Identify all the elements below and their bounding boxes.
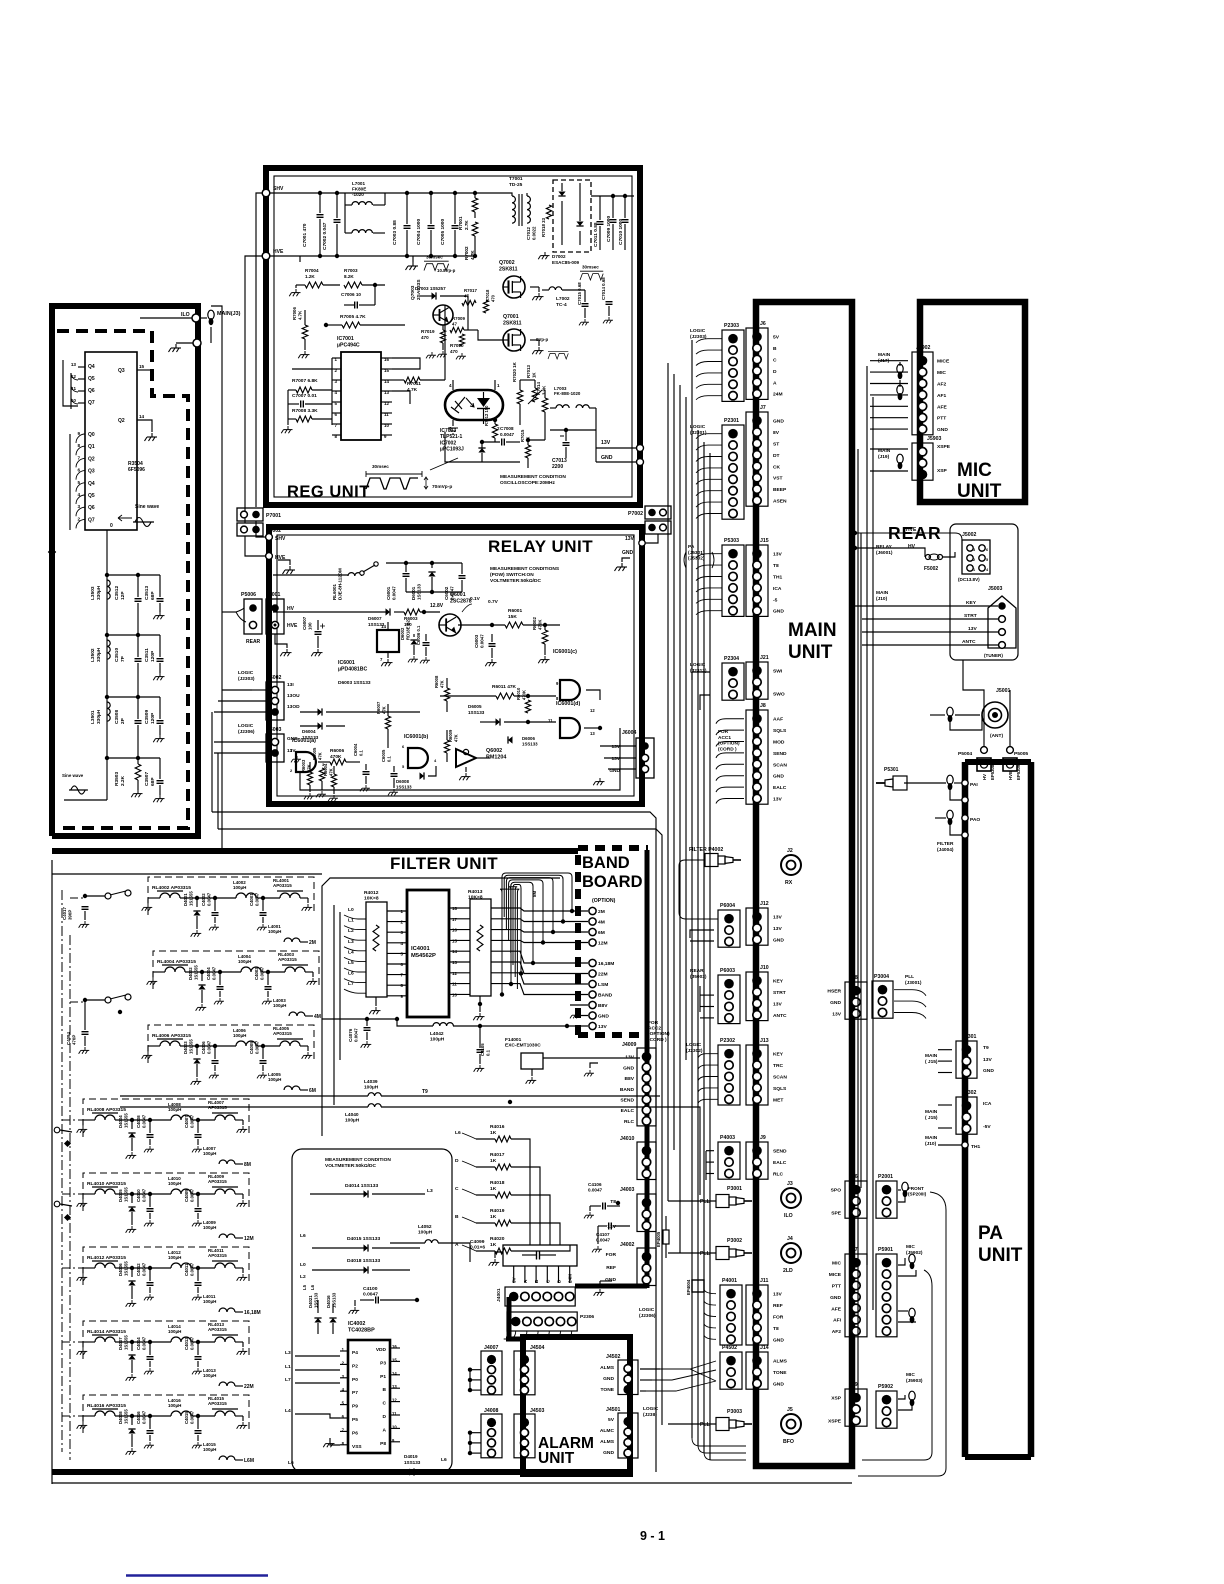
wires into J6002/J6003 xyxy=(252,689,266,691)
svg-text:GND: GND xyxy=(830,1000,841,1006)
svg-text:L4042: L4042 xyxy=(430,1031,444,1037)
svg-text:SQLS: SQLS xyxy=(773,728,787,734)
svg-text:D4021: D4021 xyxy=(308,1295,313,1308)
svg-text:J16: J16 xyxy=(849,1174,858,1180)
svg-text:Q7002: Q7002 xyxy=(499,260,515,266)
svg-text:(J19): (J19) xyxy=(878,454,890,460)
ground R7006 xyxy=(298,351,309,358)
svg-text:CK: CK xyxy=(773,464,781,470)
svg-text:(J5903): (J5903) xyxy=(906,1378,923,1384)
svg-text:0.0047: 0.0047 xyxy=(260,966,265,980)
svg-text:J4010: J4010 xyxy=(620,1136,635,1142)
svg-text:SHV: SHV xyxy=(273,186,284,192)
svg-text:J4009: J4009 xyxy=(622,1042,637,1048)
svg-text:470: 470 xyxy=(490,294,495,302)
svg-text:ALMS: ALMS xyxy=(600,1365,615,1371)
svg-text:12M: 12M xyxy=(598,941,608,947)
svg-text:IC6001(c): IC6001(c) xyxy=(553,649,577,655)
svg-text:L7: L7 xyxy=(285,1377,291,1383)
svg-text:100µH: 100µH xyxy=(268,929,281,934)
svg-text:1S1555: 1S1555 xyxy=(124,1409,129,1424)
svg-text:0.0047: 0.0047 xyxy=(207,1040,212,1054)
svg-text:15K: 15K xyxy=(508,614,517,620)
svg-text:EALC: EALC xyxy=(773,785,787,791)
svg-text:(J5301): (J5301) xyxy=(688,550,705,556)
svg-text:C4008: C4008 xyxy=(136,1115,141,1128)
svg-text:0.0047: 0.0047 xyxy=(354,1028,359,1042)
svg-text:L6: L6 xyxy=(300,1233,306,1239)
svg-text:J2: J2 xyxy=(787,848,793,854)
svg-text:R7007 6.8K: R7007 6.8K xyxy=(292,378,318,384)
svg-text:0.7V: 0.7V xyxy=(488,599,499,605)
svg-text:J19: J19 xyxy=(849,1382,858,1388)
svg-text:16,18M: 16,18M xyxy=(244,1310,261,1316)
svg-text:GND: GND xyxy=(603,1450,614,1456)
svg-text:C3511: C3511 xyxy=(144,648,150,662)
ground C6004 xyxy=(360,785,370,791)
svg-text:13V: 13V xyxy=(287,748,296,754)
FILTER UNIT thin bottom border xyxy=(52,1482,852,1484)
svg-text:HVE: HVE xyxy=(287,623,298,629)
svg-text:T8: T8 xyxy=(773,1326,779,1332)
ground C6005 xyxy=(388,789,398,795)
ground near ILO xyxy=(169,344,182,352)
svg-text:14: 14 xyxy=(139,414,145,419)
svg-text:D6002: D6002 xyxy=(400,627,405,640)
RELAY UNIT border xyxy=(269,527,642,804)
svg-text:J8: J8 xyxy=(760,703,766,709)
FRONT (SP2001) label xyxy=(902,1182,908,1191)
zener IC7002 side xyxy=(478,448,485,453)
svg-text:470: 470 xyxy=(421,335,429,340)
svg-text:(SP200I): (SP200I) xyxy=(908,1191,927,1196)
svg-text:R7009: R7009 xyxy=(452,316,465,321)
svg-text:0.0047: 0.0047 xyxy=(255,892,260,906)
svg-text:470P: 470P xyxy=(72,1035,77,1045)
svg-text:C4007: C4007 xyxy=(184,1115,189,1128)
svg-text:R4019: R4019 xyxy=(490,1208,505,1214)
gate d output wire xyxy=(584,727,600,729)
svg-text:LSM: LSM xyxy=(598,982,608,988)
svg-text:B8V: B8V xyxy=(624,1076,634,1082)
svg-text:5V: 5V xyxy=(773,335,780,341)
svg-text:P3004: P3004 xyxy=(874,974,889,980)
svg-text:R7011: R7011 xyxy=(407,381,421,387)
svg-text:BEEP: BEEP xyxy=(773,487,787,493)
wire bottom corridor xyxy=(52,1482,852,1484)
svg-text:1S1555: 1S1555 xyxy=(124,1261,129,1276)
svg-text:12: 12 xyxy=(590,708,595,713)
svg-text:P5303: P5303 xyxy=(724,538,739,544)
svg-text:(CORD ): (CORD ) xyxy=(648,1037,667,1043)
svg-text:2M: 2M xyxy=(598,909,605,915)
ground J5002 xyxy=(996,534,1004,540)
svg-text:J5001: J5001 xyxy=(996,688,1011,694)
svg-text:XSPE: XSPE xyxy=(937,444,951,450)
svg-text:0.0047: 0.0047 xyxy=(255,1040,260,1054)
svg-text:100µH: 100µH xyxy=(168,1107,181,1112)
svg-text:BAND: BAND xyxy=(620,1087,635,1093)
svg-text:TC4028BP: TC4028BP xyxy=(348,1328,375,1334)
svg-text:UNIT: UNIT xyxy=(957,481,1002,502)
svg-text:13V: 13V xyxy=(625,536,635,542)
svg-text:13V: 13V xyxy=(773,915,782,921)
svg-text:UNIT: UNIT xyxy=(538,1450,575,1467)
svg-text:0.0047: 0.0047 xyxy=(190,1262,195,1276)
svg-text:L6M: L6M xyxy=(244,1458,254,1464)
svg-text:EP5308: EP5308 xyxy=(990,764,995,780)
svg-text:R7006: R7006 xyxy=(292,307,297,320)
filter left dash-dot bus B xyxy=(69,935,71,1460)
svg-text:Q2: Q2 xyxy=(88,456,95,462)
svg-text:J6002: J6002 xyxy=(267,675,282,681)
svg-text:R3504: R3504 xyxy=(128,461,143,467)
ground Q7001 source xyxy=(530,339,539,341)
svg-text:J4007: J4007 xyxy=(484,1345,499,1351)
svg-text:1K: 1K xyxy=(490,1242,497,1248)
svg-text:D4005: D4005 xyxy=(118,1189,123,1202)
resistor R7008 470 xyxy=(483,300,488,313)
filter left small circles row4/5 xyxy=(54,1127,60,1133)
svg-text:P2001: P2001 xyxy=(878,1174,893,1180)
svg-text:C6003: C6003 xyxy=(474,634,479,648)
svg-text:PA: PA xyxy=(688,544,695,550)
svg-text:J6003: J6003 xyxy=(267,727,282,733)
svg-text:(J2306): (J2306) xyxy=(238,729,255,735)
svg-text:J13: J13 xyxy=(760,1038,769,1044)
svg-text:SEND: SEND xyxy=(620,1098,634,1104)
svg-text:MICE: MICE xyxy=(829,1272,842,1278)
svg-text:Q3: Q3 xyxy=(88,469,95,475)
svg-text:L3502: L3502 xyxy=(90,648,96,662)
P6003 wires xyxy=(700,994,714,996)
svg-text:ASEN: ASEN xyxy=(773,499,787,505)
svg-text:R6004: R6004 xyxy=(323,763,328,776)
wires J4009 area gnd xyxy=(590,1063,598,1068)
svg-text:470: 470 xyxy=(450,349,458,354)
svg-text:L5: L5 xyxy=(302,1284,307,1290)
svg-text:1K: 1K xyxy=(490,1186,497,1192)
FILTER UNIT thick top border xyxy=(52,848,578,854)
svg-text:J4001: J4001 xyxy=(496,1288,502,1302)
svg-text:µPC494C: µPC494C xyxy=(337,342,360,348)
svg-text:J6001: J6001 xyxy=(266,592,281,598)
svg-text:T9: T9 xyxy=(983,1045,989,1051)
svg-text:AP03315: AP03315 xyxy=(273,883,292,888)
svg-text:ALMC: ALMC xyxy=(600,1428,615,1434)
ground C3509 xyxy=(153,735,164,742)
svg-text:0.0047: 0.0047 xyxy=(212,966,217,980)
svg-text:DJE-8H-112DM: DJE-8H-112DM xyxy=(338,568,343,600)
svg-text:J5: J5 xyxy=(787,1407,793,1413)
svg-text:13V: 13V xyxy=(611,756,620,762)
svg-text:0.0047: 0.0047 xyxy=(480,634,485,648)
svg-text:13V: 13V xyxy=(773,926,782,932)
band board 13V/GND wires xyxy=(570,1004,588,1006)
ground C3507 xyxy=(153,795,164,802)
svg-text:FILTER: FILTER xyxy=(937,841,954,847)
svg-text:R7002: R7002 xyxy=(464,246,469,260)
relay bottom bus wires xyxy=(300,728,620,790)
svg-text:PLL: PLL xyxy=(700,1422,711,1428)
svg-text:J5903: J5903 xyxy=(927,436,942,442)
svg-text:LOGIC: LOGIC xyxy=(238,670,254,676)
svg-text:GND: GND xyxy=(773,938,784,944)
svg-text:GND: GND xyxy=(773,419,784,425)
svg-text:6M: 6M xyxy=(598,930,605,936)
svg-text:R6006: R6006 xyxy=(330,748,344,754)
svg-text:MEASUREMENT CONDITION: MEASUREMENT CONDITION xyxy=(325,1157,391,1163)
node SHV relay xyxy=(266,534,273,541)
svg-text:0.0047: 0.0047 xyxy=(142,1410,147,1424)
svg-text:47K: 47K xyxy=(381,706,386,714)
svg-text:PA: PA xyxy=(978,1223,1003,1244)
svg-text:GND: GND xyxy=(623,1065,634,1071)
svg-text:PTT: PTT xyxy=(937,416,946,422)
svg-text:0.0047: 0.0047 xyxy=(392,586,397,600)
wire SHV to P7001 xyxy=(256,193,262,507)
svg-text:1S1555: 1S1555 xyxy=(194,965,199,980)
svg-text:GND: GND xyxy=(937,427,948,433)
svg-text:6M: 6M xyxy=(309,1088,316,1094)
svg-text:HVE: HVE xyxy=(906,527,917,533)
svg-text:C7002 0.047: C7002 0.047 xyxy=(322,222,328,250)
svg-text:120P: 120P xyxy=(150,712,156,724)
svg-text:13V: 13V xyxy=(832,1012,841,1018)
svg-text:P7: P7 xyxy=(352,1390,358,1396)
svg-text:L4052: L4052 xyxy=(418,1224,432,1230)
MAIN UNIT border xyxy=(756,302,852,1466)
svg-text:T9: T9 xyxy=(422,1089,428,1095)
svg-text:R7003: R7003 xyxy=(344,268,358,273)
ground at R3504 pin 14 xyxy=(145,433,158,441)
svg-text:GND: GND xyxy=(605,1277,616,1283)
svg-text:47: 47 xyxy=(464,294,469,299)
svg-text:(OPTION): (OPTION) xyxy=(648,1031,670,1037)
svg-text:GND: GND xyxy=(622,550,634,556)
node PAO xyxy=(962,815,968,821)
svg-text:100µH: 100µH xyxy=(345,1118,360,1124)
right corridor vertical wires MIC to PA xyxy=(860,533,862,1188)
svg-text:TONE: TONE xyxy=(773,1370,787,1376)
svg-text:C7005 1000: C7005 1000 xyxy=(440,219,446,245)
svg-text:D6007: D6007 xyxy=(368,616,382,621)
svg-text:Q6: Q6 xyxy=(88,388,95,394)
svg-text:( J15): ( J15) xyxy=(925,1059,938,1065)
svg-text:C3513: C3513 xyxy=(144,586,150,600)
band bus fan from R4013 direct wires xyxy=(491,908,588,911)
LC ladder node 2 xyxy=(105,633,109,637)
ground R3503 xyxy=(131,790,142,797)
P2301 wires xyxy=(696,434,722,439)
svg-text:C3510: C3510 xyxy=(114,648,120,662)
connector P6002 xyxy=(237,523,263,536)
svg-text:J4002: J4002 xyxy=(620,1242,635,1248)
svg-text:2SC2878: 2SC2878 xyxy=(450,598,472,604)
ground IC4002 VSS xyxy=(330,1438,340,1445)
thick bus J4001 to ALARM xyxy=(507,1297,512,1341)
svg-text:Sine wave: Sine wave xyxy=(62,773,84,778)
svg-text:SEND: SEND xyxy=(773,1149,787,1155)
svg-text:100: 100 xyxy=(308,622,313,630)
svg-text:REAR: REAR xyxy=(246,639,261,645)
svg-text:C4001: C4001 xyxy=(249,893,254,906)
svg-text:0.0047: 0.0047 xyxy=(190,1188,195,1202)
plug P4002 xyxy=(705,854,741,867)
svg-text:PLL: PLL xyxy=(700,1199,711,1205)
svg-text:47K: 47K xyxy=(439,680,444,688)
svg-text:R4012: R4012 xyxy=(364,890,379,896)
svg-text:RLC: RLC xyxy=(624,1119,635,1125)
svg-text:13V: 13V xyxy=(611,744,620,750)
PA UNIT border xyxy=(965,759,1031,765)
svg-text:D7003 1S5257: D7003 1S5257 xyxy=(415,286,446,291)
svg-text:L3: L3 xyxy=(285,1350,291,1356)
svg-text:P5004: P5004 xyxy=(958,751,972,757)
P4001 wires fan xyxy=(704,1290,716,1294)
svg-text:100µH: 100µH xyxy=(268,1077,281,1082)
svg-text:Q0: Q0 xyxy=(88,432,95,438)
svg-text:8M: 8M xyxy=(244,1162,251,1168)
svg-text:IC6001: IC6001 xyxy=(338,660,355,666)
svg-text:T8: T8 xyxy=(610,1199,616,1205)
svg-text:C4006: C4006 xyxy=(201,1041,206,1054)
svg-text:XSP: XSP xyxy=(831,1396,842,1402)
J5302 wires xyxy=(938,1104,952,1106)
svg-text:L0: L0 xyxy=(348,907,354,913)
svg-text:13V: 13V xyxy=(598,1024,607,1030)
svg-text:0.0047: 0.0047 xyxy=(190,1114,195,1128)
svg-text:7P: 7P xyxy=(120,655,126,662)
svg-text:R7018 33: R7018 33 xyxy=(541,217,546,237)
svg-text:C6004: C6004 xyxy=(353,743,358,756)
svg-text:IC7001: IC7001 xyxy=(337,336,354,342)
feeder verticals left of R4012 xyxy=(333,905,335,1105)
svg-text:100µH: 100µH xyxy=(168,1181,181,1186)
IC R3504 left pin hooks (top) xyxy=(63,360,78,406)
svg-text:C4011: C4011 xyxy=(184,1263,189,1276)
svg-text:1SS133: 1SS133 xyxy=(396,785,412,790)
svg-text:HV: HV xyxy=(287,606,295,612)
svg-text:MIC: MIC xyxy=(937,370,946,376)
svg-text:C3512: C3512 xyxy=(114,586,120,600)
svg-text:L6: L6 xyxy=(288,1460,294,1466)
svg-text:Q5: Q5 xyxy=(88,493,95,499)
svg-text:STRT: STRT xyxy=(964,613,977,619)
FILTER UNIT thin outer border xyxy=(51,860,53,1484)
svg-text:120P: 120P xyxy=(150,650,156,662)
svg-text:P4003: P4003 xyxy=(720,1135,735,1141)
svg-text:-1020: -1020 xyxy=(352,192,364,197)
svg-text:MAIN: MAIN xyxy=(925,1135,938,1141)
svg-text:MAIN: MAIN xyxy=(925,1053,938,1059)
svg-text:AF2: AF2 xyxy=(937,382,947,388)
LC ladder node 1 xyxy=(105,573,109,577)
svg-text:13V: 13V xyxy=(773,797,782,803)
svg-text:J12: J12 xyxy=(760,901,769,907)
REG HVE rail xyxy=(270,255,300,257)
svg-text:2LD: 2LD xyxy=(783,1268,793,1274)
svg-text:J3: J3 xyxy=(787,1181,793,1187)
svg-text:STRT: STRT xyxy=(773,990,786,996)
J5902 left wires xyxy=(870,360,908,362)
svg-text:13: 13 xyxy=(590,731,595,736)
connector P6001 xyxy=(645,521,671,534)
svg-text:VDD: VDD xyxy=(376,1347,387,1353)
svg-text:470K: 470K xyxy=(538,619,543,630)
svg-text:0.1: 0.1 xyxy=(486,1049,491,1056)
svg-text:Q6: Q6 xyxy=(88,505,95,511)
svg-text:VOLTMETER:50kΩ/DC: VOLTMETER:50kΩ/DC xyxy=(490,578,541,584)
svg-text:L1: L1 xyxy=(285,1364,291,1370)
svg-text:LOGIC: LOGIC xyxy=(238,723,254,729)
svg-text:100µH: 100µH xyxy=(203,1373,216,1378)
svg-text:C4015: C4015 xyxy=(184,1411,189,1424)
svg-text:68P: 68P xyxy=(150,777,156,786)
component EP4004 xyxy=(692,1280,704,1292)
P4502 crossing wires xyxy=(640,1368,660,1370)
svg-text:P5301: P5301 xyxy=(884,767,899,773)
svg-text:SQLS: SQLS xyxy=(773,1086,787,1092)
diode D6004 1SS133 x2 xyxy=(318,708,323,715)
svg-text:R7005 4.7K: R7005 4.7K xyxy=(340,314,366,320)
svg-text:C4002: C4002 xyxy=(201,893,206,906)
svg-text:12M: 12M xyxy=(244,1236,254,1242)
svg-text:HVE: HVE xyxy=(273,249,284,255)
svg-text:0.0047: 0.0047 xyxy=(142,1188,147,1202)
svg-text:SCAN: SCAN xyxy=(773,762,787,768)
svg-text:2P: 2P xyxy=(120,717,126,724)
svg-text:ILO: ILO xyxy=(784,1213,793,1219)
svg-text:R7004: R7004 xyxy=(305,268,319,273)
svg-text:A: A xyxy=(383,1427,387,1433)
J5301 wires xyxy=(938,1049,952,1051)
svg-text:AP03315: AP03315 xyxy=(208,1253,227,1258)
svg-text:P2: P2 xyxy=(352,1363,358,1369)
svg-text:P4: P4 xyxy=(352,1350,358,1356)
svg-text:C6007: C6007 xyxy=(302,616,307,630)
svg-text:VOLTMETER:50kΩ/DC: VOLTMETER:50kΩ/DC xyxy=(325,1163,376,1169)
svg-text:(J4004): (J4004) xyxy=(937,847,954,853)
svg-text:L3503: L3503 xyxy=(90,586,96,600)
svg-text:P2302: P2302 xyxy=(720,1038,735,1044)
node HVE relay xyxy=(266,553,273,560)
REAR thin box xyxy=(950,524,1018,660)
svg-text:P3003: P3003 xyxy=(727,1409,742,1415)
svg-text:AF1: AF1 xyxy=(937,393,947,399)
svg-text:L7: L7 xyxy=(348,981,354,987)
svg-text:RL4004 AP03315: RL4004 AP03315 xyxy=(157,959,196,965)
svg-text:J14: J14 xyxy=(760,1345,769,1351)
svg-text:C3508: C3508 xyxy=(114,710,120,724)
filter left dash-dot stubs to rows xyxy=(62,1119,83,1121)
svg-text:P3002: P3002 xyxy=(727,1238,742,1244)
svg-text:P2301: P2301 xyxy=(724,418,739,424)
svg-text:Q5: Q5 xyxy=(88,376,95,382)
svg-text:(POW) SWITCH:ON: (POW) SWITCH:ON xyxy=(490,572,534,578)
svg-text:(J3001): (J3001) xyxy=(905,980,922,986)
svg-text:TH1: TH1 xyxy=(971,1144,981,1150)
svg-text:C7015 0.68: C7015 0.68 xyxy=(577,282,582,305)
svg-text:J21: J21 xyxy=(760,655,769,661)
svg-text:100µH: 100µH xyxy=(238,959,251,964)
svg-text:D6004: D6004 xyxy=(302,729,316,734)
svg-text:470K: 470K xyxy=(521,690,526,700)
svg-text:J5902: J5902 xyxy=(916,345,931,351)
svg-text:ACC1: ACC1 xyxy=(718,735,731,741)
svg-text:J9: J9 xyxy=(760,1135,766,1141)
fuse F5002 xyxy=(926,555,931,560)
